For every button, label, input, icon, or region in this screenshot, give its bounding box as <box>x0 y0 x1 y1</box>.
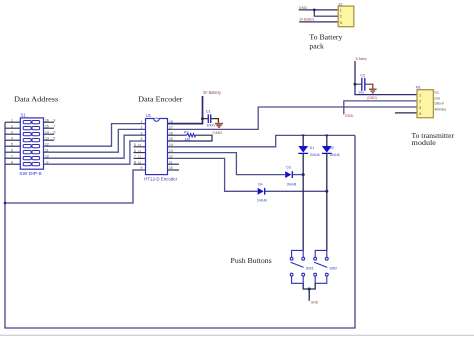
svg-text:1M: 1M <box>185 137 190 141</box>
junction: D4 wire and SW2 column <box>325 190 328 193</box>
wire: encoder pin17 DOUT to M1 pin3 <box>168 107 418 129</box>
wire: encoder pin18 to 3V battery rail <box>168 96 203 124</box>
diode D3 <box>285 171 292 178</box>
svg-text:3: 3 <box>11 130 13 134</box>
svg-text:10u: 10u <box>358 90 364 94</box>
wire: 3V Battery to J2 pin3 <box>299 21 338 23</box>
svg-text:8: 8 <box>54 118 56 122</box>
U1 right pin numbers 18-10 <box>169 120 173 170</box>
wire: M1 pin4 antenna stub <box>395 112 417 114</box>
svg-text:S1: S1 <box>21 113 27 118</box>
push button SW1 <box>290 250 304 283</box>
svg-text:14: 14 <box>169 143 173 147</box>
sheet bottom edge <box>0 334 474 336</box>
svg-text:7: 7 <box>134 155 136 159</box>
svg-text:3: 3 <box>141 131 143 135</box>
wire: 3V battery down to M1 pin1 <box>355 61 417 95</box>
svg-text:1: 1 <box>141 120 143 124</box>
wire: SW2 column (rail through D2 to SW2) <box>326 135 328 250</box>
svg-text:1N4148: 1N4148 <box>310 153 320 157</box>
ground symbol at C2 <box>369 89 377 93</box>
svg-text:Data Encoder: Data Encoder <box>138 95 183 104</box>
svg-text:R2: R2 <box>184 131 189 135</box>
svg-text:100n: 100n <box>206 124 215 128</box>
svg-text:J2: J2 <box>338 2 342 6</box>
svg-text:U1: U1 <box>146 113 152 118</box>
svg-text:1N4148: 1N4148 <box>257 199 267 203</box>
svg-text:GND: GND <box>311 301 319 305</box>
svg-text:C1: C1 <box>206 108 212 113</box>
svg-text:7: 7 <box>54 124 56 128</box>
junction: J2 ground branch <box>313 9 316 12</box>
svg-text:16: 16 <box>169 131 173 135</box>
svg-text:5: 5 <box>54 136 56 140</box>
capacitor C1 branch wire <box>203 119 219 123</box>
wire: encoder pin13 to D3 <box>168 153 285 175</box>
svg-text:7: 7 <box>11 154 13 158</box>
svg-text:Vcc: Vcc <box>435 90 440 94</box>
svg-text:Data Address: Data Address <box>14 95 58 104</box>
net number labels at S1 pins 16-13 (red) <box>54 118 56 140</box>
svg-text:D4: D4 <box>258 182 262 186</box>
svg-text:Gnd: Gnd <box>435 96 441 100</box>
svg-text:14: 14 <box>138 149 142 153</box>
svg-text:15: 15 <box>45 124 49 128</box>
junction: switch ground merge <box>308 288 311 291</box>
capacitor C2 <box>362 78 365 91</box>
svg-text:17: 17 <box>169 126 173 130</box>
wire: D3 cathode to SW1 column <box>293 174 303 176</box>
ground symbol at C1 <box>215 124 223 128</box>
svg-text:14: 14 <box>45 130 49 134</box>
encoder U1 body <box>146 119 168 175</box>
svg-text:15: 15 <box>169 137 173 141</box>
svg-text:16: 16 <box>138 160 142 164</box>
svg-text:3V Battery: 3V Battery <box>355 57 367 61</box>
S1 right pin numbers 16-9 <box>45 118 49 164</box>
junction: bus / pin9 return <box>4 202 7 205</box>
connector J2 body <box>338 6 354 27</box>
svg-text:Antenna: Antenna <box>435 108 447 112</box>
svg-text:D2: D2 <box>330 146 334 150</box>
junction: C2 tap <box>354 83 357 86</box>
dip switch S1 rockers <box>23 121 39 166</box>
svg-text:10: 10 <box>169 166 173 170</box>
annotation: To transmitter module <box>412 131 455 147</box>
S1 left pin numbers 1-8 <box>11 118 13 164</box>
svg-text:18: 18 <box>169 120 173 124</box>
dip switch S1 right pin stubs (pins 16-13) <box>44 122 55 140</box>
diode D1 <box>298 146 308 153</box>
svg-text:SW1: SW1 <box>306 266 314 270</box>
svg-text:Data In: Data In <box>435 102 445 106</box>
wire: S1 pin9 to encoder pin4 <box>44 141 146 164</box>
wire: encoder pin14 TE to push-button top rail <box>168 135 356 146</box>
wire: GND bus left of S1 with big bottom loop to push-button rail <box>5 122 355 328</box>
svg-text:12: 12 <box>45 142 49 146</box>
svg-text:D1: D1 <box>310 146 314 150</box>
svg-text:9: 9 <box>141 166 143 170</box>
svg-text:6: 6 <box>54 130 56 134</box>
connector J2 wires: GND to pin1 and pin2 <box>299 10 339 16</box>
svg-text:GND: GND <box>299 6 308 10</box>
M1 pin numbers 1-4 <box>419 92 422 116</box>
svg-text:5: 5 <box>11 142 13 146</box>
svg-text:8: 8 <box>134 160 136 164</box>
wire: D4 cathode to SW2 column <box>265 190 327 192</box>
junction: C1 tap on 3V rail <box>201 117 204 120</box>
net number labels at U1 pins 5-8 (red) <box>138 143 142 164</box>
capacitor C2 branch wire <box>355 84 373 88</box>
push button SW2 <box>314 250 328 283</box>
svg-text:16: 16 <box>45 118 49 122</box>
resistor R2 <box>187 134 196 137</box>
svg-text:1N4148: 1N4148 <box>330 153 340 157</box>
svg-text:HT12-D Encoder: HT12-D Encoder <box>144 177 178 182</box>
svg-text:8: 8 <box>11 160 13 164</box>
encoder U1 left pin stubs (pins 5-8) <box>134 147 146 164</box>
wire: encoder pin9 ground return to bus <box>5 170 146 203</box>
diode D4 <box>258 188 265 195</box>
svg-text:module: module <box>412 138 437 147</box>
svg-text:5: 5 <box>134 143 136 147</box>
svg-text:2: 2 <box>141 126 143 130</box>
svg-text:SW2: SW2 <box>329 266 337 270</box>
wire: encoder pin16 to R2 <box>168 134 187 136</box>
svg-text:15: 15 <box>138 155 142 159</box>
svg-text:4: 4 <box>141 137 143 141</box>
svg-text:To Battery: To Battery <box>309 33 342 42</box>
annotation: To Battery pack <box>309 33 342 51</box>
wire: S1 pin12 to encoder pin1 <box>44 124 146 147</box>
wire: S1 pin11 to encoder pin2 <box>44 129 146 152</box>
svg-text:(GND): (GND) <box>367 96 377 100</box>
svg-text:pack: pack <box>309 42 324 51</box>
svg-text:Push Buttons: Push Buttons <box>231 256 272 265</box>
wire: SW1 column (rail through D1 to SW1) <box>302 135 304 250</box>
J2 pin numbers 1-3 <box>340 8 343 25</box>
svg-text:GND: GND <box>212 131 222 135</box>
svg-text:13: 13 <box>169 149 173 153</box>
svg-text:13: 13 <box>138 143 142 147</box>
dip switch S1 left pin stubs <box>5 122 20 164</box>
svg-text:11: 11 <box>169 160 173 164</box>
svg-text:6: 6 <box>134 149 136 153</box>
svg-text:11: 11 <box>45 148 49 152</box>
svg-text:9: 9 <box>47 160 49 164</box>
svg-text:3V Battery: 3V Battery <box>203 90 222 95</box>
svg-text:2: 2 <box>11 124 13 128</box>
svg-text:D3: D3 <box>286 166 290 170</box>
encoder U1 right pin stubs (pins 11,10) <box>168 164 180 170</box>
svg-text:1: 1 <box>11 118 13 122</box>
connector M1 body <box>417 90 433 118</box>
wire: SW1/SW2 bottoms merge to ground <box>303 283 315 301</box>
svg-text:C2: C2 <box>360 74 365 78</box>
svg-text:M1: M1 <box>416 86 421 90</box>
wire: R2 to encoder pin15 loop <box>168 135 213 141</box>
capacitor C1 <box>208 114 210 123</box>
junction: rail and SW2 column <box>326 134 328 136</box>
svg-text:4: 4 <box>11 136 13 140</box>
wire: M1 pin2 ground stub <box>344 101 417 115</box>
svg-text:GND: GND <box>345 113 354 118</box>
svg-text:SW DIP-8: SW DIP-8 <box>19 171 42 176</box>
encoder U1 notch <box>154 119 160 122</box>
svg-text:1N4148: 1N4148 <box>286 182 296 186</box>
dip switch S1 body <box>20 118 43 169</box>
svg-text:6: 6 <box>11 148 13 152</box>
wire: S1 pin10 to encoder pin3 <box>44 135 146 158</box>
junction: rail and SW1 column <box>302 134 304 136</box>
diode D2 <box>322 146 332 153</box>
svg-text:10: 10 <box>45 154 49 158</box>
junction: D3 wire and SW1 column <box>302 173 305 176</box>
U1 left pin numbers 1-9 <box>134 120 143 170</box>
svg-text:13: 13 <box>45 136 49 140</box>
svg-text:3V Battery: 3V Battery <box>299 18 314 22</box>
wire: encoder pin12 to D4 <box>168 158 258 191</box>
svg-text:12: 12 <box>169 155 173 159</box>
